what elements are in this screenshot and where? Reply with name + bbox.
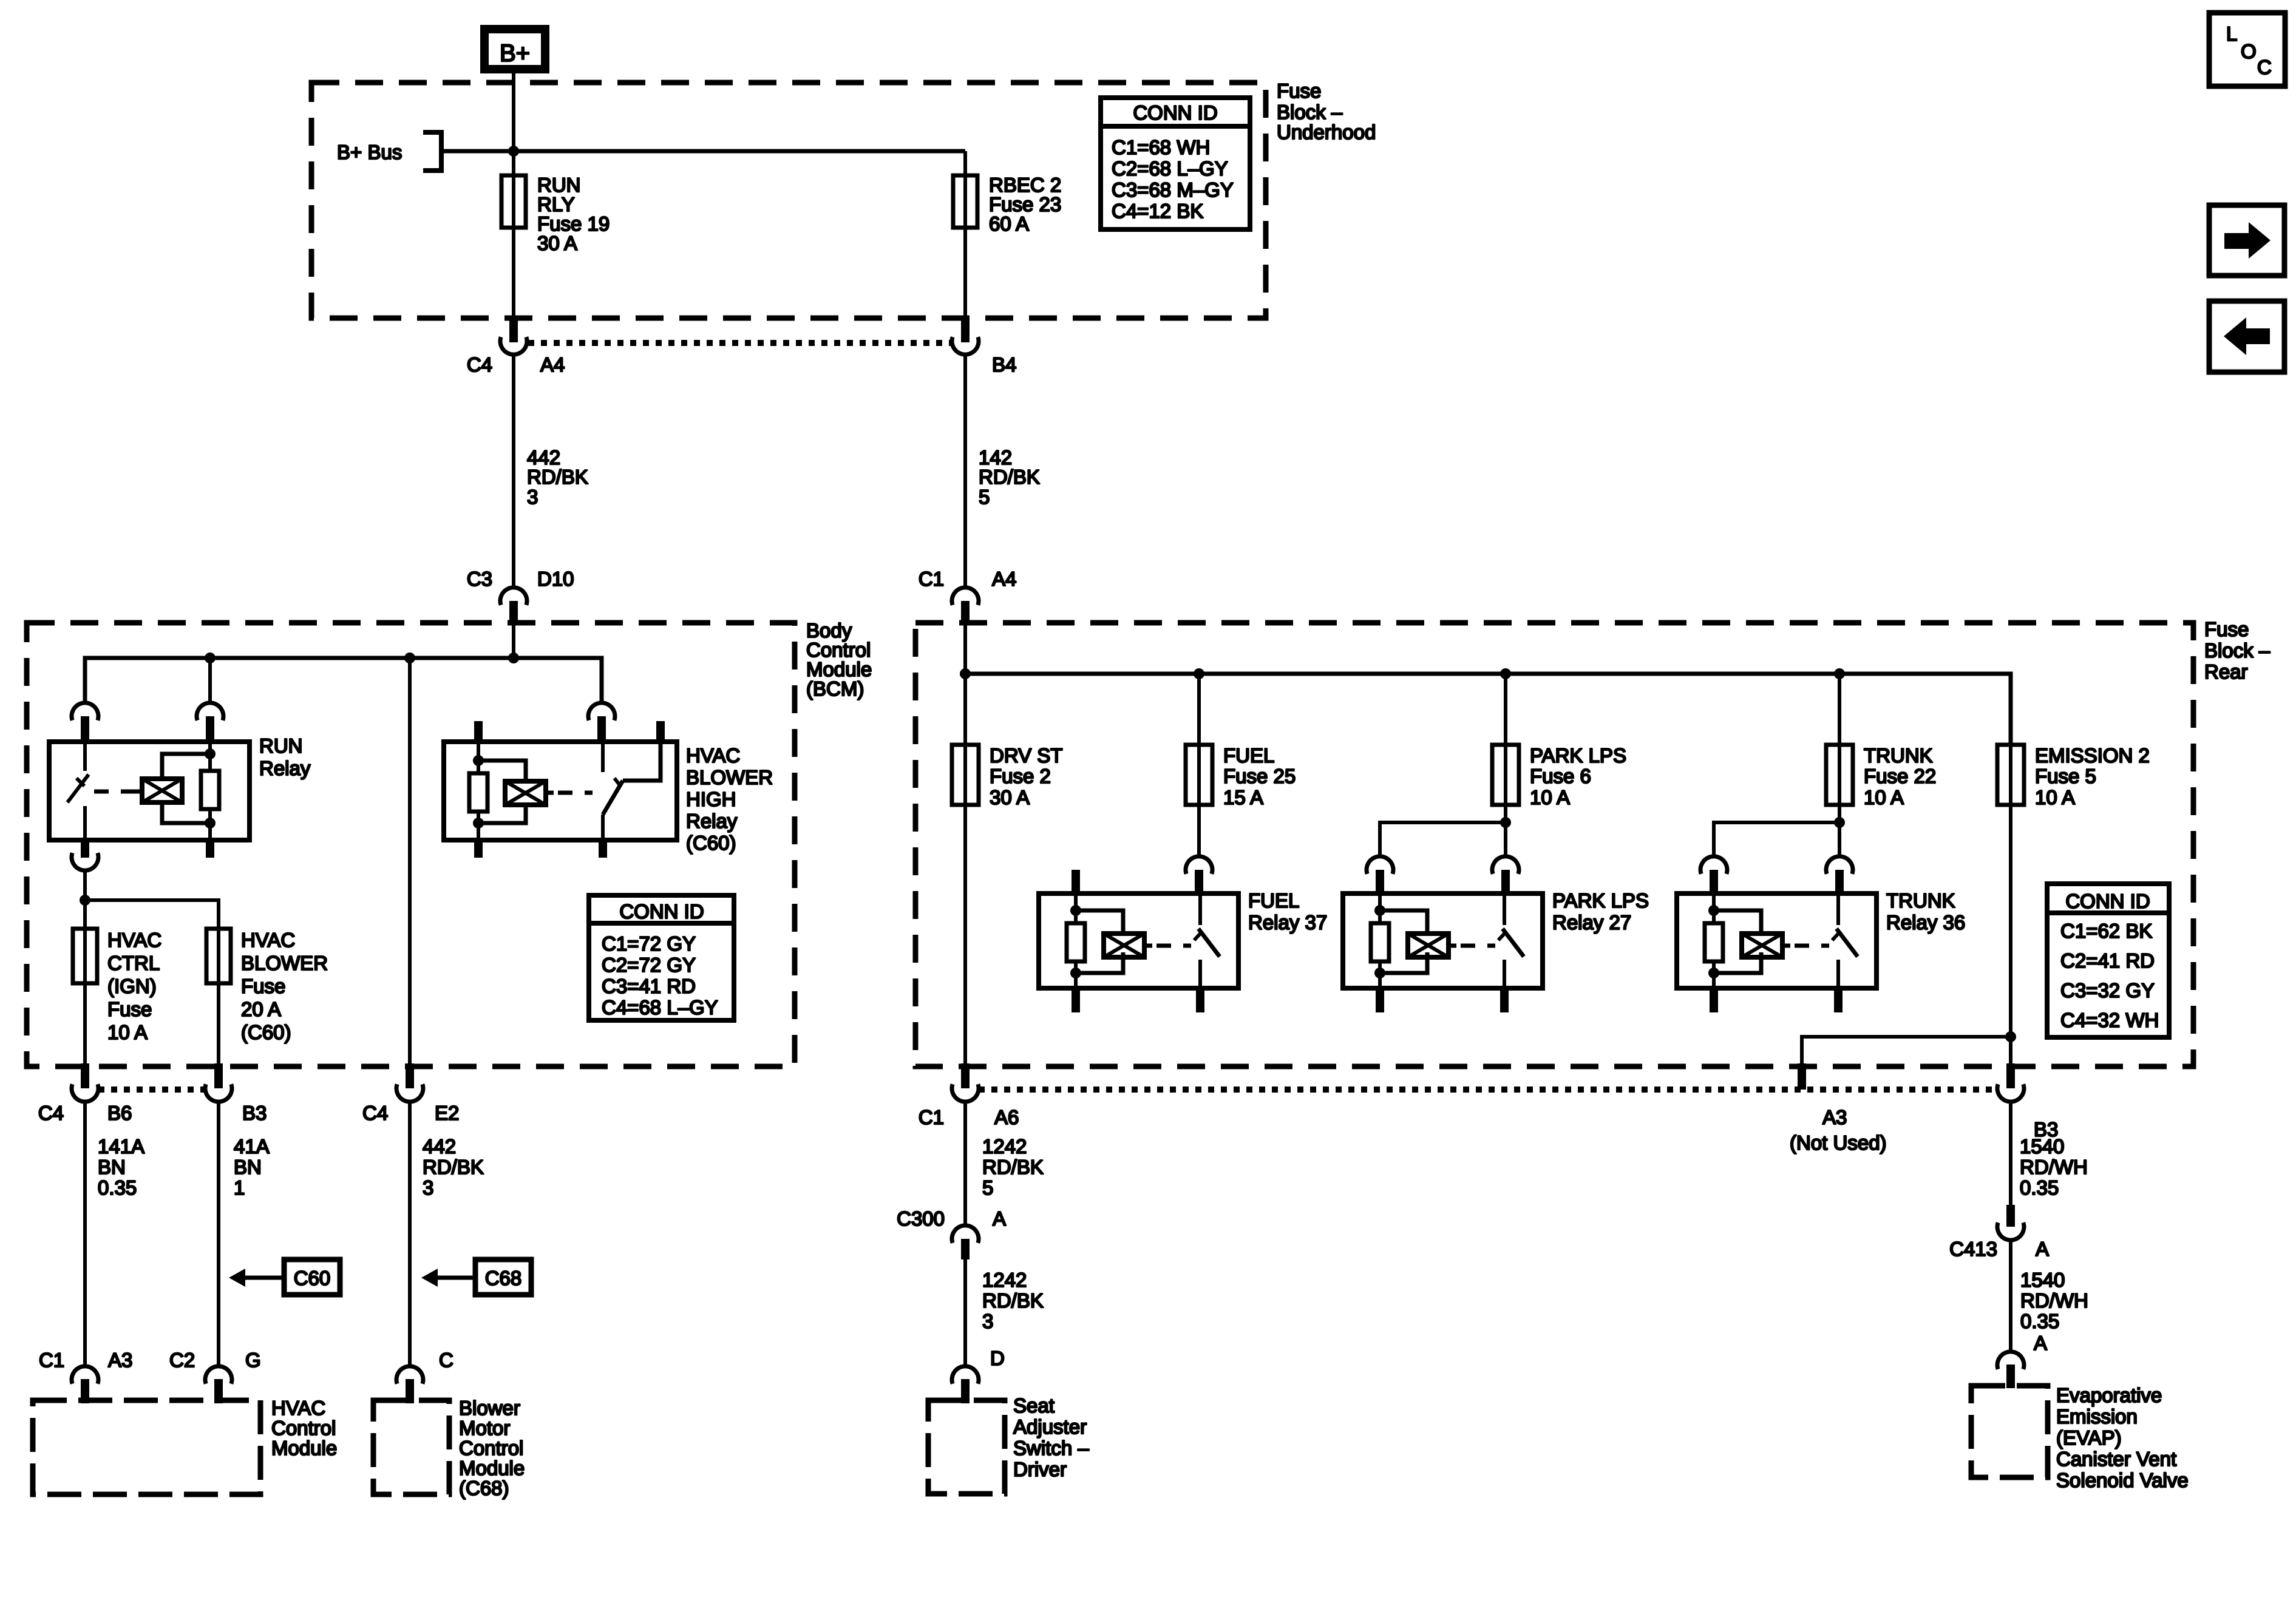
svg-text:Switch –: Switch – [1013, 1437, 1089, 1459]
relay RUN coil X-box [134, 779, 182, 802]
svg-text:C: C [439, 1349, 453, 1371]
connector C1 pin A4 labels [919, 568, 1017, 590]
CONN ID table (underhood) [1101, 98, 1250, 229]
relay HVAC BLOWER HIGH switch feed connector [588, 703, 615, 742]
wire B+ bus horizontal [441, 149, 965, 154]
fuse HVAC CTRL (IGN) 10A [73, 929, 97, 983]
svg-text:Solenoid Valve: Solenoid Valve [2056, 1469, 2189, 1491]
connector pin D label [990, 1347, 1005, 1369]
svg-text:DRV ST: DRV ST [990, 744, 1062, 767]
svg-text:C4: C4 [38, 1102, 64, 1124]
svg-text:B6: B6 [107, 1102, 132, 1124]
connector C1 pin A4 into fuse block rear [952, 588, 979, 624]
svg-text:Fuse: Fuse [241, 975, 285, 997]
svg-text:D: D [990, 1347, 1005, 1369]
relay RUN coil parallel rails [162, 754, 210, 823]
relay TRUNK 36 actuator dashed link [1795, 944, 1829, 948]
relay FUEL 37 outline [1039, 893, 1238, 988]
connector pin D into seat adjuster switch [952, 1366, 979, 1403]
svg-text:1540: 1540 [2020, 1135, 2064, 1158]
junction EMISSION wire / A3 stub [2005, 1031, 2016, 1042]
fuse F5 label [2035, 744, 2150, 808]
svg-text:EMISSION 2: EMISSION 2 [2035, 744, 2150, 767]
wire TRUNK fuse to relay and coil branch [1714, 805, 1839, 856]
svg-text:C3=32 GY: C3=32 GY [2060, 979, 2155, 1002]
relay FUEL 37 coil junction dots [1070, 905, 1081, 978]
svg-text:(EVAP): (EVAP) [2056, 1426, 2122, 1449]
wire 1242 RD/BK 5 [963, 1102, 967, 1224]
svg-text:L: L [2226, 22, 2237, 45]
CONN ID table (rear) [2047, 884, 2169, 1037]
junction HVAC fuse feed split [80, 895, 90, 906]
connector B4 label [992, 353, 1016, 376]
relay FUEL 37 coil X-box [1104, 934, 1152, 957]
wire 41A BN 1 label [234, 1135, 270, 1199]
Fuse Block - Rear dashed outline [915, 623, 2193, 1066]
svg-text:E2: E2 [435, 1102, 459, 1124]
relay TRUNK 36 outline [1677, 893, 1877, 988]
svg-text:Fuse: Fuse [107, 998, 152, 1020]
junction TRUNK branch [1834, 817, 1845, 828]
svg-text:Motor: Motor [459, 1417, 510, 1439]
Fuse Block - Underhood label [1277, 80, 1376, 143]
connector C4 pin E2 exit [396, 1063, 423, 1102]
wire rear internal bus [965, 674, 2011, 747]
svg-text:3: 3 [982, 1310, 993, 1332]
svg-text:FUEL: FUEL [1248, 889, 1299, 912]
svg-text:5: 5 [982, 1176, 993, 1199]
svg-text:C1=68 WH: C1=68 WH [1112, 136, 1210, 158]
fuse F25 label [1223, 744, 1296, 808]
svg-text:RD/BK: RD/BK [979, 466, 1040, 488]
relay HVAC BLOWER HIGH switch contacts [603, 742, 661, 840]
relay TRUNK 36 switch feed connector [1826, 856, 1853, 893]
connector C1 pin A6 exit [952, 1063, 979, 1102]
relay HVAC BLOWER HIGH NO contact pin (top right) [656, 721, 665, 742]
wire RUN relay output to HVAC fuses [83, 870, 87, 929]
relay FUEL 37 label [1248, 889, 1327, 934]
svg-text:C1: C1 [919, 568, 944, 590]
svg-text:PARK LPS: PARK LPS [1552, 889, 1649, 912]
svg-text:C2=68 L–GY: C2=68 L–GY [1112, 157, 1228, 180]
relay PARK LPS 27 actuator dashed link [1461, 944, 1495, 948]
svg-text:Module: Module [271, 1437, 337, 1459]
wire HVAC BLOWER fuse to B3 [217, 983, 220, 1066]
next-page right arrow icon [2209, 205, 2284, 276]
fuse F19 RUN RLY 30A [501, 175, 526, 228]
svg-text:Relay: Relay [686, 810, 738, 832]
svg-text:Relay 36: Relay 36 [1886, 911, 1965, 934]
wire RUN relay coil feed [208, 658, 212, 703]
svg-text:C1=72 GY: C1=72 GY [602, 932, 696, 955]
connector C4 pin E2 labels [362, 1102, 459, 1124]
svg-text:10 A: 10 A [2035, 786, 2075, 808]
svg-text:C60: C60 [294, 1267, 331, 1289]
wire branch to HVAC BLOWER fuse [85, 900, 219, 929]
svg-text:Driver: Driver [1013, 1458, 1067, 1480]
connector B4 [952, 320, 979, 354]
relay HVAC BLOWER HIGH coil rails [478, 761, 526, 823]
fuse F6 label [1530, 744, 1626, 808]
relay RUN switch pin connector (top left) [72, 703, 98, 742]
wire 1242 RD/BK 3 [963, 1259, 967, 1365]
fuse F23 label [989, 174, 1061, 235]
svg-text:RD/BK: RD/BK [982, 1156, 1044, 1178]
svg-text:Fuse: Fuse [2204, 618, 2249, 640]
connector reference C68 arrow [421, 1259, 531, 1295]
svg-text:15 A: 15 A [1223, 786, 1263, 808]
svg-text:FUEL: FUEL [1223, 744, 1274, 767]
svg-text:1: 1 [234, 1176, 245, 1199]
B+ Bus label [337, 141, 402, 163]
svg-text:C1: C1 [919, 1106, 944, 1128]
fuse F19 label [537, 174, 610, 254]
relay PARK LPS 27 coil rails [1380, 910, 1427, 973]
svg-text:C1=62 BK: C1=62 BK [2060, 920, 2152, 942]
connector pin A3 not used [1798, 1063, 1806, 1090]
svg-text:60 A: 60 A [989, 212, 1029, 235]
relay RUN switch output connector [72, 853, 98, 870]
svg-text:30 A: 30 A [990, 786, 1030, 808]
relay FUEL 37 coil resistor [1067, 893, 1085, 988]
svg-text:A: A [2036, 1238, 2049, 1260]
wire 1242 RD/BK 3 label [982, 1269, 1044, 1332]
connector reference C60 arrow [229, 1259, 340, 1295]
svg-text:C3=41 RD: C3=41 RD [602, 975, 696, 997]
relay TRUNK 36 bottom pins [1710, 988, 1843, 1012]
svg-text:141A: 141A [98, 1135, 144, 1158]
svg-text:0.35: 0.35 [2020, 1310, 2059, 1332]
relay PARK LPS 27 switch feed connector [1492, 856, 1519, 893]
fuse F22 TRUNK 10A [1826, 745, 1853, 805]
wire FUEL fuse feed [1197, 674, 1201, 745]
wire D10 to BCM bus [512, 624, 515, 658]
relay HVAC BLOWER HIGH coil resistor [469, 742, 487, 840]
fuse HVAC BLOWER label [241, 929, 328, 1043]
wire fuse 23 output to connector B4 [963, 228, 967, 320]
svg-text:C: C [2257, 56, 2272, 78]
relay HVAC BLOWER HIGH coil pin (top left) [474, 721, 483, 742]
relay RUN coil resistor [201, 742, 219, 840]
relay PARK LPS 27 coil resistor [1371, 893, 1389, 988]
svg-text:Control: Control [271, 1417, 336, 1439]
Seat Adjuster Switch dashed box [928, 1400, 1005, 1494]
relay HVAC BLOWER HIGH coil junction dots [473, 755, 484, 829]
svg-text:RD/BK: RD/BK [982, 1289, 1044, 1312]
svg-text:3: 3 [423, 1176, 433, 1199]
fuse F22 label [1864, 744, 1936, 808]
svg-text:(Not Used): (Not Used) [1790, 1131, 1887, 1154]
fuse F2 label [990, 744, 1062, 808]
power symbol B+ [484, 29, 545, 69]
wire BCM internal bus [85, 658, 602, 703]
svg-text:Evaporative: Evaporative [2056, 1384, 2162, 1406]
svg-text:CONN ID: CONN ID [1133, 101, 1217, 124]
connector body dotted line C1 A6-B3 [979, 1086, 1997, 1093]
wire EMISSION 2 fuse to B3 [2009, 805, 2012, 1066]
connector C1 pin A6 labels [919, 1106, 1019, 1128]
svg-text:A4: A4 [540, 353, 565, 376]
relay FUEL 37 switch feed connector [1186, 856, 1212, 893]
svg-text:Control: Control [459, 1437, 523, 1459]
svg-text:Canister Vent: Canister Vent [2056, 1448, 2176, 1470]
fuse F5 EMISSION 2 10A [1997, 745, 2024, 805]
svg-text:C3: C3 [467, 568, 492, 590]
connector C3 pin D10 into BCM [500, 588, 527, 624]
junction BCM bus at D10 wire [508, 653, 519, 663]
svg-text:Relay 37: Relay 37 [1248, 911, 1327, 934]
svg-text:Underhood: Underhood [1277, 121, 1376, 143]
svg-text:C300: C300 [897, 1207, 945, 1230]
svg-text:C4=32 WH: C4=32 WH [2060, 1009, 2159, 1031]
wire BCM to blower motor module (internal) [408, 658, 412, 1066]
wire 442 RD/BK 3 (blower) [408, 1102, 412, 1365]
svg-text:41A: 41A [234, 1135, 270, 1158]
relay PARK LPS 27 bottom pins [1376, 988, 1509, 1012]
wire 442 RD/BK 3 label [527, 446, 588, 508]
LOC legend box [2209, 13, 2285, 86]
svg-text:B4: B4 [992, 353, 1016, 376]
svg-text:20 A: 20 A [241, 998, 281, 1020]
wire HVAC CTRL fuse to C4-B6 [83, 983, 87, 1066]
relay TRUNK 36 coil resistor [1705, 893, 1723, 988]
Body Control Module dashed outline [27, 623, 795, 1066]
wire 142 RD/BK 5 label [979, 446, 1040, 508]
junction rear bus at PARK LPS fuse [1500, 668, 1511, 679]
relay RUN coil junction dots [205, 748, 216, 829]
junction BCM bus to RUN relay coil [205, 653, 216, 663]
svg-text:(BCM): (BCM) [806, 677, 864, 700]
wire RBEC2 feed down [963, 151, 967, 175]
wire 1540 RD/WH 0.35 (lower) [2009, 1240, 2012, 1351]
svg-text:0.35: 0.35 [98, 1176, 137, 1199]
wire FUEL fuse to relay [1197, 805, 1201, 856]
svg-text:Fuse 2: Fuse 2 [990, 765, 1051, 787]
svg-text:A: A [2034, 1332, 2047, 1354]
svg-text:CONN ID: CONN ID [2065, 890, 2150, 912]
relay PARK LPS 27 outline [1343, 893, 1543, 988]
relay HVAC BLOWER HIGH label [686, 744, 773, 854]
connector pin A label (EVAP) [2034, 1332, 2047, 1354]
wire 142 RD/BK 5 (fuse23 to fuse block rear) [963, 354, 967, 586]
fuse F2 DRV ST 30A [952, 745, 979, 805]
svg-text:C68: C68 [485, 1267, 522, 1289]
wire 141A BN 0.35 label [98, 1135, 144, 1199]
svg-text:C1: C1 [39, 1349, 64, 1371]
connector pin B3 label [242, 1102, 267, 1124]
svg-text:HVAC: HVAC [686, 744, 740, 767]
connector pin B3 exit [205, 1063, 232, 1102]
svg-text:10 A: 10 A [107, 1021, 148, 1043]
junction rear bus at TRUNK fuse [1834, 668, 1845, 679]
svg-text:10 A: 10 A [1530, 786, 1570, 808]
relay RUN outline [49, 742, 250, 840]
svg-text:0.35: 0.35 [2020, 1176, 2059, 1199]
relay TRUNK 36 label [1886, 889, 1965, 934]
svg-text:1242: 1242 [982, 1269, 1027, 1291]
relay RUN bottom pins [81, 840, 214, 858]
junction BCM bus to blower module wire [404, 653, 415, 663]
svg-text:D10: D10 [537, 568, 574, 590]
svg-text:TRUNK: TRUNK [1886, 889, 1955, 912]
HVAC Control Module label [271, 1397, 337, 1459]
svg-text:C2=41 RD: C2=41 RD [2060, 949, 2155, 972]
svg-text:B+ Bus: B+ Bus [337, 141, 402, 163]
svg-text:Fuse 6: Fuse 6 [1530, 765, 1591, 787]
svg-text:PARK LPS: PARK LPS [1530, 744, 1626, 767]
Blower Motor Control Module label [459, 1397, 525, 1499]
connector C2 pin G into HVAC control module [205, 1366, 232, 1403]
Blower Motor Control Module dashed box [373, 1400, 449, 1494]
connector pin A into EVAP solenoid [1997, 1352, 2024, 1388]
wire TRUNK fuse feed [1838, 674, 1841, 745]
wire fuse 19 output to connector C4-A4 [512, 228, 515, 320]
svg-text:C413: C413 [1949, 1238, 1997, 1260]
svg-text:Rear: Rear [2204, 660, 2248, 683]
connector C4 pin B6 exit [72, 1063, 98, 1102]
svg-text:Module: Module [459, 1457, 525, 1479]
svg-text:HVAC: HVAC [271, 1397, 325, 1419]
svg-text:Emission: Emission [2056, 1405, 2138, 1428]
svg-text:Adjuster: Adjuster [1013, 1415, 1087, 1438]
relay HVAC BLOWER HIGH actuator dashed link [558, 791, 593, 795]
connector pin B3 label (rear) [2034, 1118, 2058, 1141]
svg-text:A: A [993, 1207, 1006, 1230]
svg-text:HVAC: HVAC [107, 929, 161, 951]
wire rear block feed to bus [963, 624, 967, 674]
svg-text:A6: A6 [994, 1106, 1019, 1128]
wire 1242 RD/BK 5 label [982, 1135, 1044, 1199]
junction rear bus at FUEL fuse [1194, 668, 1204, 679]
svg-text:HVAC: HVAC [241, 929, 295, 951]
relay HVAC BLOWER HIGH coil X-box [505, 781, 554, 805]
junction rear bus at DRV ST [960, 668, 971, 679]
relay TRUNK 36 coil junction dots [1708, 905, 1719, 978]
wire 442 RD/BK 3 label (blower) [423, 1135, 484, 1199]
junction B+ bus / RUN RLY fuse [508, 146, 519, 157]
connector C300 pin A labels [897, 1207, 1006, 1230]
svg-text:HIGH: HIGH [686, 788, 736, 810]
wire PARK LPS fuse feed [1504, 674, 1507, 745]
B+ Bus tap bracket [423, 132, 441, 171]
svg-text:(C60): (C60) [686, 832, 736, 854]
relay FUEL 37 switch contacts [1194, 893, 1220, 988]
relay FUEL 37 coil rails [1076, 910, 1123, 973]
relay TRUNK 36 coil X-box [1742, 934, 1790, 957]
svg-text:442: 442 [423, 1135, 456, 1158]
svg-text:(C68): (C68) [459, 1477, 509, 1499]
connector pin C label [439, 1349, 453, 1371]
svg-text:5: 5 [979, 486, 990, 508]
svg-text:C4: C4 [362, 1102, 388, 1124]
svg-text:(IGN): (IGN) [107, 975, 157, 997]
svg-text:A3: A3 [108, 1349, 132, 1371]
svg-text:BLOWER: BLOWER [241, 952, 328, 974]
connector pin B3 exit (rear) [1997, 1063, 2024, 1102]
wire 442 RD/BK 3 (fuse19 to BCM) [512, 354, 515, 586]
relay PARK LPS 27 switch contacts [1498, 893, 1524, 988]
relay RUN actuator dashed link [94, 790, 135, 794]
svg-text:3: 3 [527, 486, 538, 508]
relay PARK LPS 27 coil feed connector [1367, 856, 1393, 893]
svg-text:CONN ID: CONN ID [619, 900, 704, 923]
CONN ID table (BCM) [589, 895, 734, 1020]
svg-text:Fuse: Fuse [1277, 80, 1321, 102]
connector C1 pin A3 into HVAC control module [72, 1366, 98, 1403]
svg-text:BN: BN [98, 1156, 126, 1178]
svg-text:A3: A3 [1822, 1106, 1847, 1128]
wire 1540 RD/WH 0.35 label (lower) [2020, 1269, 2088, 1332]
relay RUN coil pin connector (top right) [197, 703, 223, 742]
relay RUN switch contacts [67, 742, 89, 840]
connector C3 pin D10 labels [467, 568, 574, 590]
relay PARK LPS 27 label [1552, 889, 1649, 934]
svg-text:(C60): (C60) [241, 1021, 291, 1043]
svg-text:C3=68 M–GY: C3=68 M–GY [1112, 178, 1234, 201]
wire DRV ST fuse feed [963, 674, 967, 745]
HVAC Control Module dashed box [33, 1400, 260, 1494]
svg-text:B+: B+ [500, 40, 530, 67]
svg-text:C2: C2 [169, 1349, 195, 1371]
svg-text:Fuse 22: Fuse 22 [1864, 765, 1936, 787]
svg-text:Block –: Block – [1277, 101, 1343, 123]
svg-text:G: G [245, 1349, 261, 1371]
svg-text:30 A: 30 A [537, 232, 577, 254]
fuse F23 RBEC 2 60A [953, 175, 977, 228]
relay HVAC BLOWER HIGH outline [444, 742, 677, 840]
connector C300 pin A [952, 1225, 979, 1259]
wire B+ feed down from B+ symbol [512, 69, 515, 175]
svg-text:RD/BK: RD/BK [423, 1156, 484, 1178]
relay FUEL 37 bottom pins [1072, 988, 1204, 1012]
svg-text:A4: A4 [992, 568, 1016, 590]
connector C413 pin A labels [1949, 1238, 2049, 1260]
previous-page left arrow icon [2209, 301, 2284, 372]
connector C4 pin B6 labels [38, 1102, 132, 1124]
Body Control Module label [806, 619, 872, 700]
wire 141A BN 0.35 [83, 1102, 87, 1365]
svg-text:RD/WH: RD/WH [2020, 1289, 2088, 1312]
junction PARK LPS branch [1500, 817, 1511, 828]
svg-text:Seat: Seat [1013, 1394, 1055, 1417]
svg-text:O: O [2241, 40, 2257, 63]
fuse F25 FUEL 15A [1186, 745, 1212, 805]
wire 1540 RD/WH 0.35 (upper) [2009, 1102, 2012, 1205]
connector pin A3 labels [1790, 1106, 1887, 1154]
relay TRUNK 36 switch contacts [1832, 893, 1858, 988]
svg-text:RUN: RUN [259, 734, 303, 757]
svg-text:1540: 1540 [2020, 1269, 2065, 1291]
svg-text:TRUNK: TRUNK [1864, 744, 1933, 767]
EVAP canister vent solenoid label [2056, 1384, 2189, 1491]
connector body dotted line C4-B4 [528, 340, 951, 346]
svg-text:C4=68 L–GY: C4=68 L–GY [602, 996, 718, 1019]
svg-text:C2=72 GY: C2=72 GY [602, 954, 696, 976]
svg-text:10 A: 10 A [1864, 786, 1904, 808]
fuse F6 PARK LPS 10A [1492, 745, 1519, 805]
wire PARK LPS fuse to relay and coil branch [1380, 805, 1506, 856]
relay TRUNK 36 coil feed connector [1700, 856, 1727, 893]
Fuse Block - Underhood dashed outline [311, 83, 1266, 318]
connector C413 pin A [1997, 1205, 2024, 1240]
svg-text:Relay 27: Relay 27 [1552, 911, 1631, 934]
svg-text:BLOWER: BLOWER [686, 766, 773, 788]
svg-text:B3: B3 [242, 1102, 267, 1124]
connector C4 pin A4 labels [467, 353, 565, 376]
Seat Adjuster Switch label [1013, 1394, 1089, 1480]
relay FUEL 37 actuator dashed link [1156, 944, 1191, 948]
EVAP canister vent solenoid dashed box [1971, 1386, 2048, 1477]
